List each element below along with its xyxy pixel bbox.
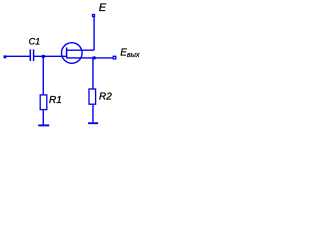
node junction source/R2 [93, 56, 96, 59]
drain lead [67, 49, 95, 51]
svg-text:R1: R1 [49, 95, 62, 106]
output terminal [113, 56, 116, 59]
capacitor C1 [29, 49, 31, 61]
wire C1 to gate [34, 55, 66, 57]
ground R1 [38, 124, 49, 126]
wire R1 to ground [42, 110, 44, 124]
svg-text:Евых: Евых [120, 48, 140, 59]
transistor VT circle [62, 43, 83, 64]
svg-text:C1: C1 [29, 36, 41, 46]
transistor gate bar [66, 47, 68, 58]
source wire to output [67, 57, 113, 59]
terminal E [93, 15, 95, 17]
wire junction down to R1 [42, 57, 44, 94]
wire R2 to ground [92, 105, 94, 122]
wire junction down to R2 [92, 58, 94, 89]
svg-text:E: E [99, 2, 107, 14]
ground R2 [88, 122, 98, 124]
node junction C1/R1 [42, 55, 45, 58]
wire input to C1 [6, 55, 30, 57]
input terminal [4, 55, 7, 58]
resistor R1 [40, 95, 47, 110]
svg-text:R2: R2 [99, 92, 112, 103]
wire riser to E [93, 17, 95, 51]
resistor R2 [89, 89, 96, 104]
